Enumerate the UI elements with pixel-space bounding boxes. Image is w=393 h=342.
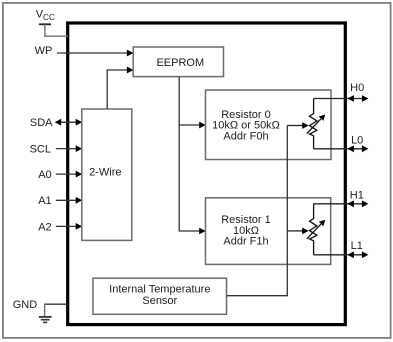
svg-text:2-Wire: 2-Wire [89, 167, 121, 179]
main device block U1 [68, 23, 346, 325]
svg-text:SDA: SDA [30, 117, 53, 129]
block Resistor 0 [206, 90, 332, 160]
svg-text:A1: A1 [38, 195, 51, 207]
wire VCC to block [44, 35, 68, 37]
wire GND to block [44, 303, 68, 305]
wire 2-Wire to EEPROM [107, 67, 133, 109]
wire A2 [56, 223, 82, 230]
wire WP to EEPROM [57, 50, 133, 57]
block 2-Wire interface [82, 109, 132, 240]
svg-text:GND: GND [13, 299, 38, 311]
wire EEPROM to resistors [179, 77, 206, 235]
svg-text:SCL: SCL [30, 143, 51, 155]
block Internal Temperature Sensor [93, 278, 227, 314]
wire SCL [56, 145, 82, 152]
potentiometer RP0 [307, 99, 325, 149]
block Resistor 1 [206, 198, 331, 265]
svg-text:EEPROM: EEPROM [156, 57, 204, 69]
wiper arrow RP1 [287, 228, 308, 235]
svg-text:Internal Temperature: Internal Temperature [109, 284, 210, 296]
potentiometer RP1 [307, 204, 325, 255]
ground symbol [39, 304, 52, 322]
svg-text:Addr F0h: Addr F0h [223, 130, 268, 142]
wire H0 [314, 95, 369, 102]
wire H1 [314, 200, 369, 207]
svg-text:A2: A2 [38, 221, 51, 233]
wire L0 [314, 145, 369, 152]
svg-text:Addr F1h: Addr F1h [223, 236, 268, 248]
wire L1 [314, 251, 369, 258]
svg-text:H1: H1 [350, 189, 364, 201]
svg-text:WP: WP [35, 45, 53, 57]
svg-text:H0: H0 [350, 82, 364, 94]
svg-text:Sensor: Sensor [142, 295, 177, 307]
wire SDA bidirectional [55, 119, 82, 126]
svg-text:VCC: VCC [36, 9, 55, 23]
wire A0 [56, 171, 82, 178]
svg-text:A0: A0 [38, 169, 51, 181]
wire A1 [56, 197, 82, 204]
block EEPROM [133, 47, 223, 77]
svg-text:L1: L1 [351, 240, 363, 252]
wiper arrow RP0 [287, 122, 308, 129]
wire temperature sensor to wipers [227, 126, 288, 296]
power symbol VCC [39, 24, 51, 36]
svg-text:L0: L0 [351, 135, 363, 147]
